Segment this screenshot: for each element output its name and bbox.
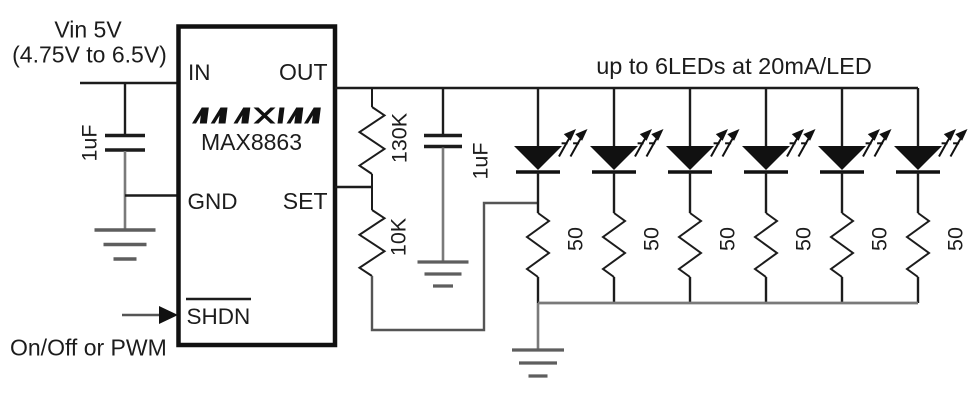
svg-text:OUT: OUT bbox=[279, 59, 328, 85]
svg-text:50: 50 bbox=[792, 227, 816, 251]
svg-text:130K: 130K bbox=[388, 112, 412, 163]
svg-text:SET: SET bbox=[283, 188, 328, 214]
svg-text:Vin 5V: Vin 5V bbox=[54, 17, 122, 43]
svg-text:1uF: 1uF bbox=[78, 124, 102, 161]
svg-text:50: 50 bbox=[564, 227, 588, 251]
svg-text:up to 6LEDs at 20mA/LED: up to 6LEDs at 20mA/LED bbox=[596, 53, 872, 79]
svg-text:MAX8863: MAX8863 bbox=[201, 129, 302, 155]
svg-text:50: 50 bbox=[640, 227, 664, 251]
svg-text:50: 50 bbox=[716, 227, 740, 251]
svg-text:50: 50 bbox=[944, 227, 968, 251]
svg-text:On/Off or PWM: On/Off or PWM bbox=[10, 335, 167, 361]
svg-text:(4.75V to 6.5V): (4.75V to 6.5V) bbox=[12, 42, 167, 68]
svg-text:GND: GND bbox=[188, 189, 238, 214]
svg-text:SHDN: SHDN bbox=[187, 304, 251, 329]
svg-text:IN: IN bbox=[188, 60, 211, 85]
svg-text:1uF: 1uF bbox=[469, 142, 493, 179]
svg-text:50: 50 bbox=[868, 227, 892, 251]
svg-text:10K: 10K bbox=[387, 217, 411, 256]
